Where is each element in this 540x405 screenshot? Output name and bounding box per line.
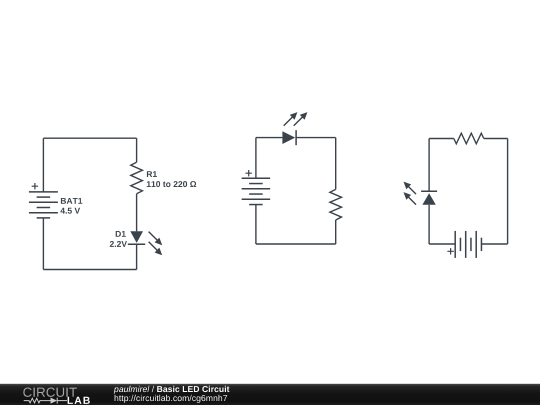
wire: circuit 2 top right (296, 137, 336, 139)
wire: circuit 3 left upper (428, 139, 430, 192)
wire: circuit 1 bottom (43, 269, 136, 271)
LED (circuit 3) (404, 182, 438, 205)
value 2.2V (110, 241, 127, 247)
battery (circuit 2) (242, 170, 271, 205)
wire: circuit 3 bottom right (481, 243, 507, 245)
wire: circuit 2 bottom (256, 243, 336, 245)
wire: circuit 1 top (43, 137, 136, 139)
wire: circuit 3 left lower (428, 205, 430, 244)
battery (circuit 3) (447, 231, 481, 258)
wire: circuit 1 left upper (42, 138, 44, 192)
wire: circuit 3 top left (429, 138, 454, 140)
footer bar (0, 384, 540, 405)
CircuitLab logo text CIRCUIT (23, 388, 77, 397)
wire: circuit 2 right upper (335, 138, 337, 190)
wire: circuit 3 bottom left (429, 243, 455, 245)
resistor (circuit 2) (330, 189, 342, 220)
footer title: paulmirel / Basic LED Circuit (114, 386, 230, 394)
battery BAT1 (29, 183, 58, 218)
wire: circuit 2 right lower (335, 220, 337, 244)
wire: circuit 3 top right (484, 138, 508, 140)
wire: circuit 1 right lower (136, 244, 138, 269)
wire: circuit 2 left upper (255, 138, 257, 179)
footer url (115, 395, 228, 403)
wire: circuit 1 right upper (136, 138, 138, 162)
wire: circuit 2 left lower (255, 205, 257, 244)
CircuitLab logo wire with resistor and diode (24, 398, 67, 404)
resistor (circuit 3) (454, 133, 484, 144)
value 110 to 220 ohm (147, 181, 196, 187)
LED (circuit 2) (282, 112, 307, 145)
wire: circuit 1 left lower (42, 218, 44, 270)
wire: circuit 2 top left (256, 137, 283, 139)
label BAT1 (61, 198, 82, 204)
wire: circuit 1 resistor to LED (136, 194, 138, 232)
label D1 (116, 231, 126, 237)
CircuitLab logo text LAB (68, 397, 90, 404)
label R1 (147, 171, 157, 177)
value 4.5 V (60, 208, 80, 214)
resistor R1 (131, 162, 143, 194)
wire: circuit 3 right (507, 139, 509, 245)
LED D1 (128, 231, 162, 255)
